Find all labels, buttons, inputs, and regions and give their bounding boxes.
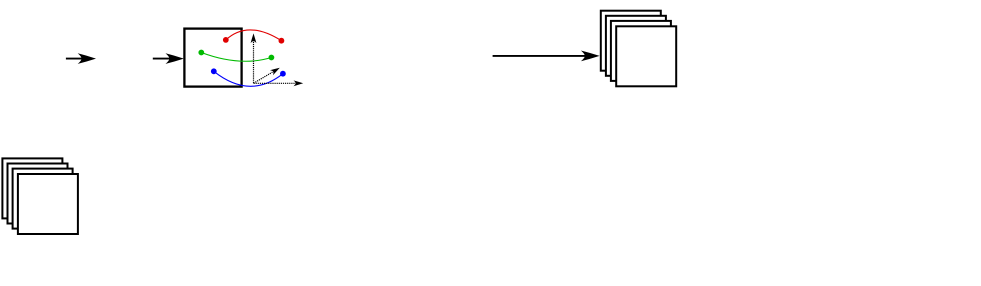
output stack sheet 4 (front)	[616, 26, 676, 86]
output stack sheet 3	[611, 21, 671, 81]
box (sampling cell)	[184, 29, 241, 87]
green point P2'	[269, 55, 275, 61]
axis Z (dotted, diagonal)	[254, 65, 282, 83]
output stack sheet 2	[606, 16, 666, 76]
input stack sheet 3	[13, 169, 73, 229]
axis Y (dotted, up)	[251, 33, 257, 83]
wire arrow A1	[66, 53, 96, 64]
red point P1'	[279, 38, 285, 44]
input stack sheet 4 (front)	[18, 174, 78, 234]
green point P2	[198, 50, 204, 56]
green displacement curve	[201, 53, 271, 62]
output feature map stack (top right), sheet 1	[601, 11, 661, 71]
input feature map stack (bottom left), sheet 1	[2, 158, 62, 218]
red point P1	[223, 37, 229, 43]
blue point P3'	[280, 71, 286, 77]
blue displacement curve	[214, 71, 283, 86]
axis X (dotted, right)	[254, 80, 304, 86]
red displacement curve	[226, 30, 282, 41]
input stack sheet 2	[8, 164, 68, 224]
wire arrow A2	[153, 53, 184, 64]
blue point P3	[211, 68, 217, 74]
wire arrow A3 (long)	[493, 50, 600, 61]
